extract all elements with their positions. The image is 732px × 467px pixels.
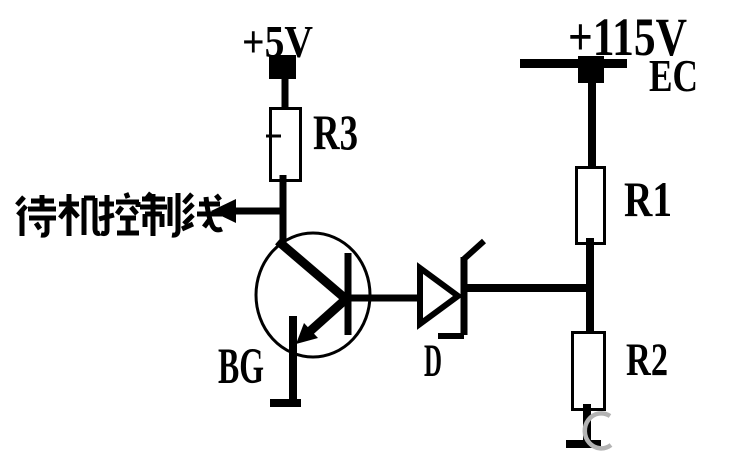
wire: R2 bottom to ground [583,404,591,444]
svg-text:BG: BG [218,339,264,395]
wire: R1 bottom to junction to R2 top [586,238,594,344]
ground (R2) [566,440,601,448]
transistor BG: collector stroke (diagonal) [278,241,347,300]
ground (emitter) [270,399,301,407]
transistor BG: emitter arrowhead [296,323,318,344]
svg-text:R3: R3 [313,104,358,160]
svg-text:R1: R1 [624,171,672,227]
char 制 [140,193,178,236]
wire: EC node to R1 top [588,83,596,174]
transistor BG: emitter stroke (diagonal) [308,299,346,333]
diode D: cathode bar [461,257,468,335]
wire: diode cathode to R1/R2 junction [464,284,593,292]
resistor R2 [573,333,605,410]
watermark arc [585,413,611,448]
wire: emitter to ground [289,316,297,404]
diode D: cathode bottom hook [438,333,464,339]
diode D: anode triangle [420,268,458,324]
transistor BG: body circle [256,233,370,357]
wire: +5V node to R3 top [282,78,289,118]
char 机 [59,194,100,236]
node EC (filled square) [578,56,604,83]
resistor R3 [266,109,301,181]
wire: R3 bottom through junction down to transistor collector [280,175,287,244]
node: +5V supply terminal (filled square) [269,55,296,79]
svg-text:D: D [424,335,442,387]
wire: standby control line (horizontal) [222,208,286,215]
net label 待机控制线 (standby control line), drawn strokes [17,193,222,236]
char 线 [182,194,222,230]
transistor BG: base bar [345,253,352,335]
power rail bar +115V [520,59,627,68]
diode D: cathode top hook [464,241,484,259]
svg-text:R2: R2 [626,334,668,386]
resistor R1 [577,168,605,244]
svg-text:EC: EC [649,51,698,101]
arrowhead on standby control line [211,199,236,223]
char 待 [17,195,56,236]
wire: base to diode anode [348,295,419,302]
char 控 [99,193,139,234]
